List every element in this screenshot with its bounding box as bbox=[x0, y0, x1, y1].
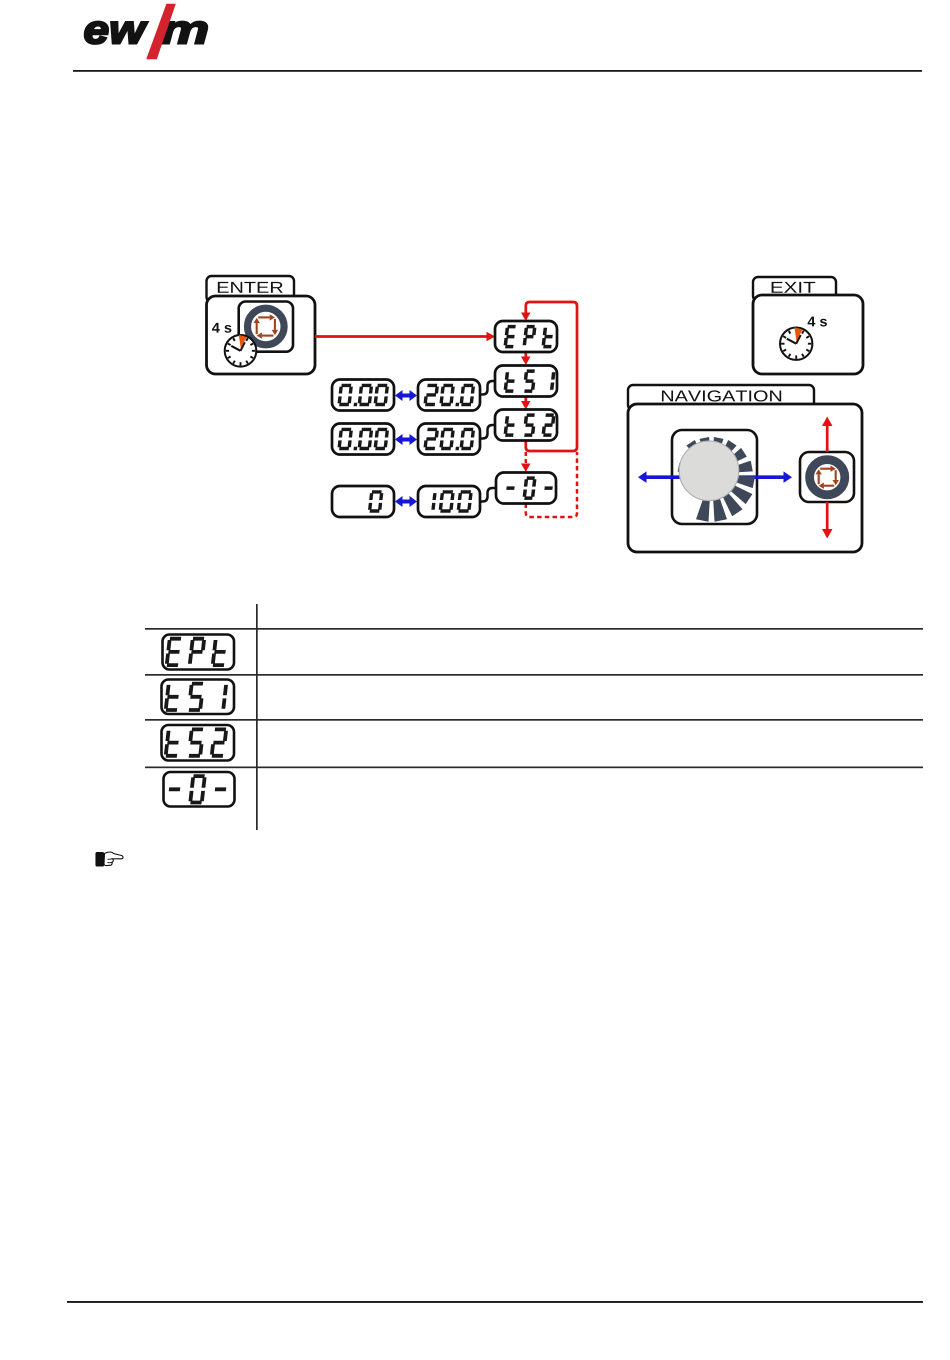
table display tS2 bbox=[162, 725, 235, 761]
value box 20.0 (tS1 max) bbox=[418, 380, 480, 411]
NAVIGATION tab bbox=[628, 385, 814, 410]
display -0- bbox=[496, 473, 556, 504]
blue double arrow -0- values bbox=[401, 500, 411, 504]
EXIT tab bbox=[753, 277, 836, 301]
connector wire 20.0 to tS1 bbox=[480, 381, 496, 395]
value box 100 (-0- max) bbox=[418, 486, 480, 517]
table display tS1 bbox=[162, 680, 235, 715]
red arrow wire ENTER to EPt bbox=[315, 335, 487, 338]
header rule bbox=[73, 70, 922, 72]
ENTER 4s label bbox=[212, 323, 231, 333]
ENTER clock icon bbox=[225, 335, 257, 367]
blue double arrow tS2 values bbox=[401, 438, 411, 442]
value box 0.00 (tS2 min) bbox=[332, 424, 394, 455]
NAVIGATION main box bbox=[628, 404, 862, 552]
value box 0.00 (tS1 min) bbox=[332, 380, 394, 411]
connector wire 20.0 to tS2 bbox=[480, 425, 496, 439]
display tS2 bbox=[495, 410, 557, 441]
table vertical rule bbox=[256, 604, 258, 830]
blue double arrow tS1 values bbox=[401, 394, 411, 398]
footer rule bbox=[67, 1301, 923, 1303]
NAVIGATION label bbox=[662, 390, 781, 401]
red dashed wire -0- back to loop bbox=[526, 452, 577, 517]
table horizontal rule bbox=[145, 767, 923, 769]
display tS1 bbox=[495, 366, 557, 397]
ENTER label bbox=[218, 282, 283, 293]
ewm logo bbox=[85, 4, 207, 60]
logo text ew bbox=[85, 22, 148, 44]
EXIT clock icon bbox=[780, 328, 812, 360]
red dashed arrow loop to -0- bbox=[525, 452, 528, 463]
table display -0- bbox=[164, 772, 235, 807]
value box 20.0 (tS2 max) bbox=[418, 424, 480, 455]
table horizontal rule bbox=[145, 628, 923, 630]
red arrow up from button bbox=[826, 426, 829, 452]
ENTER main box bbox=[207, 296, 316, 374]
pointing hand icon bbox=[96, 852, 123, 866]
value box 0 (-0- min) bbox=[332, 486, 394, 517]
red loop wire tS2 back to EPt bbox=[526, 302, 577, 451]
logo text m bbox=[161, 22, 207, 44]
ENTER control button U1 bbox=[239, 302, 293, 352]
blue horizontal double arrow wire bbox=[646, 475, 784, 479]
table horizontal rule bbox=[145, 719, 923, 721]
table horizontal rule bbox=[145, 674, 923, 676]
table display EPt bbox=[163, 635, 235, 670]
EXIT main box bbox=[753, 295, 863, 374]
connector wire 100 to -0- bbox=[480, 488, 497, 502]
EXIT label bbox=[772, 282, 816, 293]
display EPt bbox=[495, 321, 557, 352]
navigation control button U2 bbox=[800, 452, 854, 502]
red arrow EPt to tS1 bbox=[524, 352, 527, 357]
knob frame bbox=[672, 430, 757, 524]
rotary knob bbox=[679, 441, 739, 501]
logo red slash bbox=[146, 4, 176, 60]
rotary knob segment ring bbox=[678, 437, 755, 522]
ENTER tab bbox=[207, 276, 295, 302]
red arrow tS1 to tS2 bbox=[524, 397, 527, 402]
red arrow down from button bbox=[826, 502, 829, 529]
EXIT 4s label bbox=[808, 317, 827, 327]
